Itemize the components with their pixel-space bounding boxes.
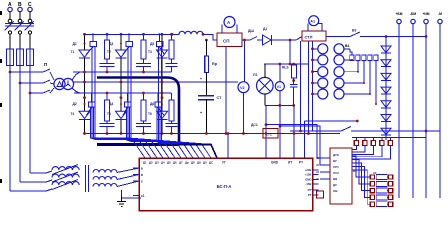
svg-text:а: а [141,167,143,171]
svg-text:СТЛ: СТЛ [305,35,313,40]
svg-text:Д1: Д1 [263,27,267,31]
svg-text:Д6: Д6 [150,102,154,106]
svg-text:Д3: Д3 [109,42,113,46]
svg-text:Т2: Т2 [107,50,111,54]
svg-text:с: с [141,180,143,184]
svg-text:V1: V1 [277,85,281,89]
svg-text:Др: Др [185,161,189,165]
svg-text:+15В: +15В [305,173,312,177]
svg-text:GND: GND [271,161,279,165]
svg-text:+ИМ: +ИМ [422,12,429,16]
svg-text:ДУ: ДУ [333,183,337,187]
svg-text:Л1: Л1 [253,73,258,77]
svg-text:УГ: УГ [222,161,226,165]
svg-text:РТ: РТ [299,161,303,165]
svg-text:Д9: Д9 [197,161,201,165]
svg-text:А1: А1 [310,20,315,24]
svg-text:-15В: -15В [305,182,311,186]
svg-text:V2: V2 [240,86,245,90]
svg-text:В4: В4 [345,44,349,48]
svg-text:Д5: Д5 [150,42,154,46]
svg-text:Д4: Д4 [161,161,165,165]
svg-text:Д6: Д6 [173,161,177,165]
svg-text:СР1: СР1 [333,165,339,169]
svg-text:-БМ: -БМ [410,12,416,16]
svg-text:Д3: Д3 [155,161,159,165]
svg-text:+: + [200,111,202,115]
svg-text:РТ: РТ [308,193,312,197]
svg-text:ВУ: ВУ [333,159,337,163]
svg-text:Т5: Т5 [107,112,111,116]
svg-text:ИТ: ИТ [288,161,292,165]
svg-text:Т3: Т3 [148,50,152,54]
svg-text:Т6: Т6 [148,112,152,116]
svg-text:Д8: Д8 [191,161,195,165]
svg-text:Д1: Д1 [73,42,77,46]
svg-text:Д4: Д4 [109,102,113,106]
svg-text:БС-П-А: БС-П-А [217,184,232,189]
svg-text:Д2: Д2 [73,102,77,106]
svg-text:в: в [141,173,143,177]
svg-text:Т4: Т4 [71,112,75,116]
svg-text:В3: В3 [352,29,356,33]
svg-text:СТ: СТ [217,96,223,100]
svg-text:ДШ: ДШ [248,29,254,33]
svg-text:Д0: Д0 [203,161,207,165]
svg-text:RLЅ: RLЅ [282,66,289,70]
svg-text:-М: -М [438,12,442,16]
svg-text:ДУ8: ДУ8 [333,153,339,157]
svg-text:Т1: Т1 [71,50,75,54]
svg-text:П: П [44,62,47,67]
svg-text:Rр: Rр [212,62,218,66]
svg-text:ДС1: ДС1 [251,123,258,127]
svg-text:+24В: +24В [305,168,312,172]
svg-text:РР: РР [308,188,312,192]
svg-text:Д2: Д2 [149,161,153,165]
svg-text:Д5: Д5 [167,161,171,165]
svg-text:Д7: Д7 [179,161,183,165]
svg-text:GND: GND [305,177,311,181]
svg-text:с1: с1 [141,194,145,198]
svg-text:ОУ2: ОУ2 [333,171,339,175]
svg-text:+: + [200,77,202,81]
svg-text:Д1: Д1 [143,161,147,165]
svg-text:СП: СП [223,39,229,44]
svg-text:+БМ: +БМ [395,12,402,16]
